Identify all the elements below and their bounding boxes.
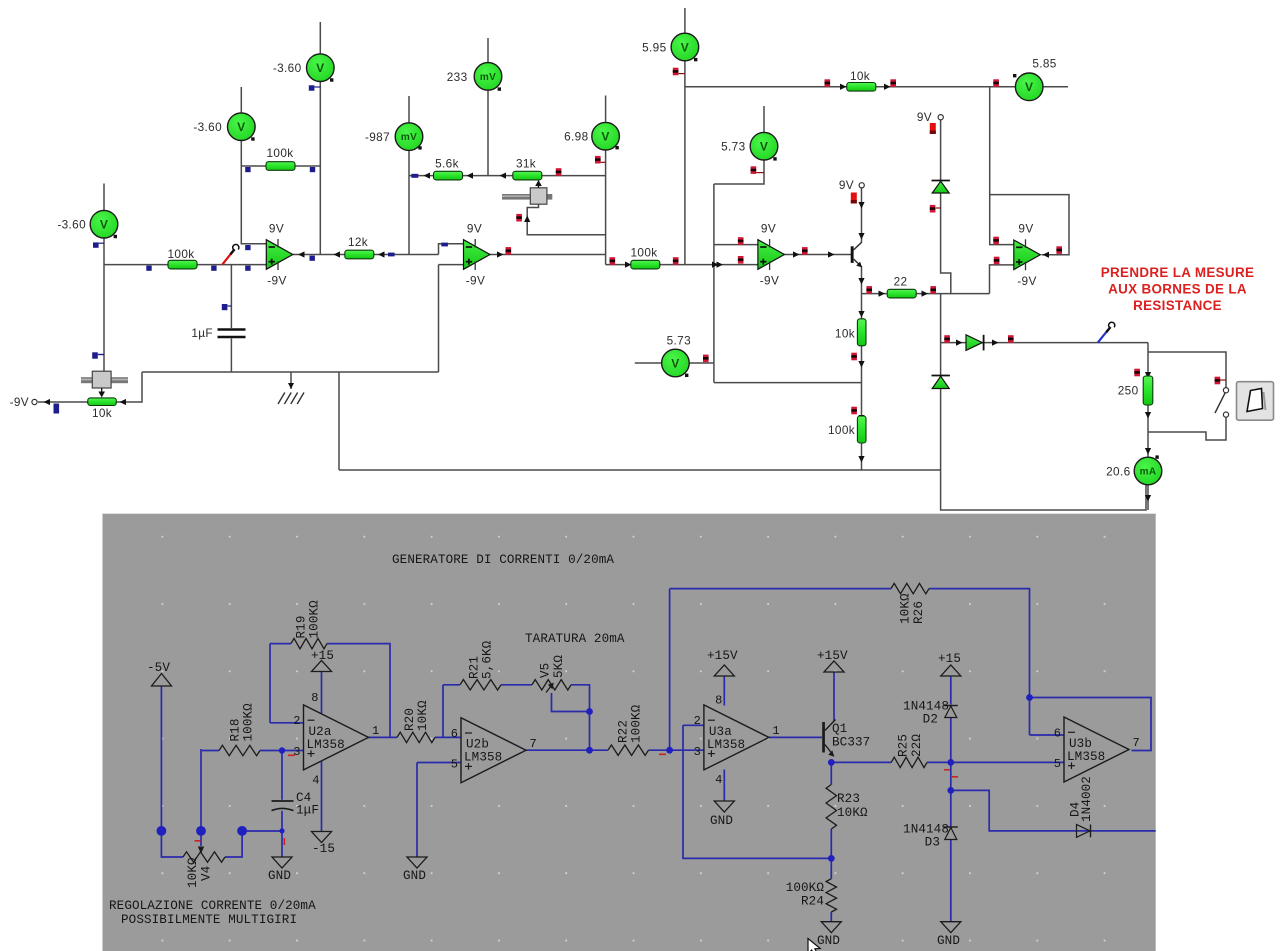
- svg-text:PRENDRE LA MESURE: PRENDRE LA MESURE: [1101, 265, 1255, 280]
- probe: [944, 335, 950, 343]
- svg-text:10k: 10k: [850, 69, 870, 83]
- probe: [556, 168, 562, 176]
- wire: [1030, 698, 1152, 751]
- probe: [245, 245, 250, 250]
- wire: [684, 8, 686, 265]
- voltmeter -3.60 V (3): [307, 54, 335, 82]
- arrow: [120, 399, 127, 405]
- op-amp U2b: [461, 718, 526, 783]
- svg-text:5.6k: 5.6k: [435, 156, 459, 170]
- probe: [1008, 335, 1014, 343]
- svg-text:LM358: LM358: [307, 738, 345, 752]
- svg-text:V: V: [760, 140, 768, 154]
- wire: [321, 672, 323, 718]
- wire: [670, 588, 891, 590]
- svg-text:5.73: 5.73: [667, 334, 691, 348]
- junction node: [666, 747, 673, 754]
- svg-text:7: 7: [1133, 736, 1140, 750]
- probe: [738, 237, 744, 245]
- wire: [950, 718, 952, 790]
- svg-text:31k: 31k: [516, 156, 536, 170]
- voltmeter -3.60 V (2): [228, 113, 256, 141]
- wire: [669, 589, 671, 751]
- ground GND (C4): [272, 857, 292, 868]
- svg-text:-9V: -9V: [466, 274, 485, 288]
- diode D2 1N4148: [944, 706, 958, 718]
- probe: [1056, 246, 1062, 254]
- junction node: [279, 747, 285, 753]
- probe: [993, 79, 999, 87]
- svg-text:9V: 9V: [1018, 222, 1033, 236]
- meter terminal dot: [685, 374, 688, 377]
- probe: [751, 166, 757, 174]
- svg-text:-15: -15: [312, 842, 335, 856]
- svg-text:7: 7: [530, 737, 537, 751]
- wire: [1147, 485, 1149, 511]
- voltmeter 233 mV: [474, 63, 502, 91]
- diode D2: [966, 335, 984, 351]
- wire: [200, 831, 202, 846]
- wire: [635, 362, 714, 364]
- arrow: [334, 251, 341, 257]
- junction node: [586, 708, 593, 715]
- junction node: [586, 747, 593, 754]
- terminal -5V: [152, 674, 172, 687]
- svg-text:+15: +15: [311, 649, 334, 663]
- arrow: [717, 261, 724, 267]
- wire: [950, 790, 952, 826]
- wire: [941, 194, 951, 294]
- wire: [714, 160, 764, 185]
- meter terminal dot: [1155, 455, 1158, 458]
- probe: [310, 256, 315, 261]
- wire: [241, 87, 266, 244]
- arrow: [922, 290, 929, 296]
- arrow: [858, 456, 864, 463]
- wire: [683, 724, 704, 726]
- svg-text:GENERATORE DI CORRENTI 0/20mA: GENERATORE DI CORRENTI 0/20mA: [392, 553, 614, 567]
- svg-text:R22: R22: [617, 720, 631, 743]
- resistor 10k (top): [847, 83, 876, 92]
- arrow: [1145, 495, 1151, 502]
- wire: [443, 684, 460, 686]
- wire: [927, 761, 1064, 763]
- wire: [831, 761, 891, 763]
- op-amp U4: [1014, 239, 1041, 270]
- svg-text:V: V: [237, 120, 245, 134]
- wire: [861, 267, 863, 471]
- resistor R23: [826, 785, 836, 830]
- junction node: [828, 855, 835, 862]
- meter terminal dot: [694, 58, 697, 61]
- wire: [38, 401, 88, 403]
- svg-text:R18: R18: [229, 719, 243, 742]
- svg-text:V: V: [100, 218, 108, 232]
- svg-text:R21: R21: [468, 656, 482, 679]
- terminal 9V (transistor): [839, 178, 864, 192]
- svg-text:V: V: [1025, 80, 1033, 94]
- svg-text:100KΩ: 100KΩ: [630, 704, 644, 743]
- probe: [506, 247, 512, 255]
- op-amp U3: [758, 239, 785, 270]
- wire: [339, 469, 941, 471]
- wire: [241, 165, 320, 167]
- switch (open, blue lever): [1098, 322, 1115, 342]
- wire: [713, 184, 715, 383]
- svg-text:+15V: +15V: [817, 649, 848, 663]
- svg-text:5: 5: [451, 758, 458, 772]
- wire: [1148, 417, 1226, 440]
- probe: [738, 256, 744, 264]
- svg-text:10k: 10k: [835, 327, 855, 341]
- probe: [146, 266, 151, 271]
- wire: [202, 750, 219, 752]
- wire: [1030, 734, 1065, 736]
- ground GND (R24): [821, 922, 841, 933]
- wire: [526, 749, 608, 751]
- wire: [416, 763, 418, 858]
- op-amp U3b: [1064, 717, 1129, 782]
- wire: [260, 750, 304, 752]
- resistor R22: [608, 745, 649, 755]
- wire: [439, 264, 464, 266]
- wire: [951, 790, 1156, 831]
- svg-text:R24: R24: [801, 895, 824, 909]
- capacitor C4: [272, 801, 294, 811]
- wire: [723, 770, 725, 802]
- svg-text:-9V: -9V: [267, 274, 286, 288]
- wire: [769, 736, 822, 738]
- ground GND (U2b): [407, 857, 427, 868]
- wire: [230, 339, 232, 373]
- svg-text:-9V: -9V: [10, 395, 29, 409]
- wire: [1147, 343, 1149, 458]
- svg-text:V5: V5: [539, 663, 553, 678]
- wire: [103, 184, 105, 372]
- probe: [994, 257, 1000, 265]
- capacitor 1uF: [218, 330, 246, 338]
- wire: [861, 188, 863, 243]
- svg-text:V: V: [681, 40, 689, 54]
- wire: [435, 736, 461, 738]
- wire: [784, 254, 851, 256]
- svg-text:9V: 9V: [917, 110, 932, 124]
- wire: [1148, 352, 1226, 388]
- potentiometer V4: [183, 852, 225, 862]
- svg-text:GND: GND: [403, 869, 426, 883]
- svg-text:+15: +15: [938, 652, 961, 666]
- probe: [1215, 377, 1221, 385]
- wire: [270, 722, 304, 724]
- svg-text:GND: GND: [710, 814, 733, 828]
- probe: [851, 353, 857, 361]
- probe: [930, 205, 936, 213]
- probe: [211, 266, 216, 271]
- svg-text:-3.60: -3.60: [273, 61, 302, 75]
- arrow: [298, 251, 305, 257]
- svg-text:250: 250: [1118, 384, 1139, 398]
- svg-text:-3.60: -3.60: [57, 217, 86, 231]
- probe: [851, 407, 857, 415]
- resistor 10k (potentiometer track): [88, 398, 117, 406]
- wire: [833, 672, 835, 721]
- svg-text:9V: 9V: [269, 221, 284, 235]
- wire: [161, 686, 183, 857]
- wire: [990, 87, 1014, 245]
- probe: [703, 355, 709, 363]
- svg-text:1: 1: [372, 724, 379, 738]
- resistor 31k: [513, 171, 542, 180]
- probe: [825, 79, 831, 87]
- probe: [930, 123, 936, 134]
- wire: [571, 685, 590, 750]
- meter terminal dot: [114, 235, 117, 238]
- zener diode D3: [932, 376, 950, 389]
- mouse cursor: [808, 939, 820, 951]
- svg-text:LM358: LM358: [707, 738, 745, 752]
- svg-text:R25: R25: [897, 734, 911, 757]
- arrow: [858, 202, 864, 209]
- svg-text:V: V: [671, 356, 679, 370]
- wire: [409, 175, 606, 177]
- probe: [92, 352, 98, 358]
- wire: [142, 371, 439, 373]
- svg-text:22: 22: [894, 275, 908, 289]
- arrow: [858, 361, 864, 368]
- ammeter 20.6 mA: [1134, 457, 1162, 485]
- probe: [595, 156, 601, 164]
- svg-text:8: 8: [311, 691, 318, 705]
- voltmeter 5.73 V (2): [662, 349, 690, 377]
- op-amp U1: [266, 239, 293, 270]
- svg-text:RESISTANCE: RESISTANCE: [1133, 298, 1222, 313]
- arrow: [884, 84, 891, 90]
- resistor R25: [891, 757, 927, 767]
- svg-text:R23: R23: [837, 792, 860, 806]
- wire: [200, 749, 202, 831]
- probe: [54, 404, 60, 414]
- wire: [990, 195, 1069, 255]
- arrow: [712, 261, 719, 267]
- arrow: [467, 172, 474, 178]
- svg-text:TARATURA 20mA: TARATURA 20mA: [525, 632, 625, 646]
- resistor R18: [219, 745, 260, 755]
- svg-text:AUX BORNES DE LA: AUX BORNES DE LA: [1108, 282, 1247, 297]
- resistor R19: [291, 638, 327, 648]
- wire: [830, 829, 832, 879]
- svg-text:100KΩ: 100KΩ: [786, 881, 825, 895]
- svg-text:5.85: 5.85: [1032, 56, 1056, 70]
- wire: [327, 644, 390, 738]
- wire: [368, 736, 397, 738]
- potentiometer V5 wiper arrow: [546, 683, 554, 693]
- svg-text:-9V: -9V: [1017, 274, 1036, 288]
- resistor 100k input: [168, 260, 197, 269]
- wire: [862, 293, 990, 295]
- junction node: [947, 759, 954, 766]
- power -15: [312, 832, 332, 843]
- svg-text:-5V: -5V: [147, 661, 170, 675]
- svg-text:8: 8: [715, 694, 722, 708]
- svg-text:V: V: [601, 130, 609, 144]
- potentiometer 31k wiper: [502, 180, 552, 204]
- svg-text:GND: GND: [268, 869, 291, 883]
- svg-text:1N4148: 1N4148: [903, 823, 949, 837]
- svg-text:5,6KΩ: 5,6KΩ: [481, 640, 495, 679]
- probe: [890, 79, 896, 87]
- resistor R20: [397, 732, 435, 742]
- probe: [222, 304, 228, 310]
- power +15 (D2): [941, 665, 961, 676]
- wire: [321, 758, 323, 832]
- probe: [610, 257, 616, 265]
- arrow: [500, 172, 507, 178]
- wire: [501, 684, 532, 686]
- wire: [649, 749, 704, 751]
- voltmeter -987 mV: [395, 123, 423, 151]
- arrow: [858, 233, 864, 240]
- power +15V (Q1): [824, 661, 844, 672]
- wire: [763, 106, 765, 133]
- svg-text:6: 6: [451, 727, 458, 741]
- schematic background: [103, 514, 1156, 951]
- diode D3 1N4148: [944, 827, 958, 840]
- arrow: [1043, 252, 1050, 258]
- arrow: [1145, 372, 1151, 379]
- wire: [552, 693, 590, 712]
- wire: [929, 589, 1030, 735]
- arrow: [858, 311, 864, 318]
- svg-text:-987: -987: [365, 130, 390, 144]
- wire: [830, 762, 832, 784]
- switch (open, red lever): [222, 244, 239, 264]
- svg-text:R26: R26: [912, 601, 926, 624]
- power +15 (U2a): [312, 661, 332, 672]
- meter terminal dot: [498, 87, 501, 90]
- probe: [309, 85, 315, 90]
- probe: [245, 167, 250, 172]
- ground: [278, 372, 304, 404]
- svg-text:mA: mA: [1140, 467, 1157, 478]
- transistor Q1 (NPN): [851, 242, 862, 267]
- wire: [950, 840, 952, 922]
- probe: [673, 257, 679, 265]
- wire: [417, 762, 461, 764]
- svg-text:1: 1: [772, 724, 779, 738]
- svg-text:LM358: LM358: [464, 751, 502, 765]
- potentiometer V5: [532, 680, 571, 690]
- wire: [714, 244, 758, 246]
- resistor R26: [891, 583, 929, 593]
- arrow: [840, 84, 847, 90]
- arrow: [44, 399, 51, 405]
- svg-text:9V: 9V: [839, 178, 854, 192]
- probe: [93, 242, 99, 247]
- svg-text:5KΩ: 5KΩ: [552, 655, 566, 678]
- diode D4 1N4002: [1077, 825, 1091, 838]
- svg-text:U3a: U3a: [709, 725, 732, 739]
- svg-text:U3b: U3b: [1069, 737, 1092, 751]
- probe: [245, 266, 250, 271]
- svg-text:100k: 100k: [828, 423, 855, 437]
- wire: [950, 676, 952, 705]
- wire: [293, 254, 439, 256]
- wire: [439, 244, 464, 255]
- svg-text:R19: R19: [295, 616, 309, 639]
- junction node: [279, 828, 284, 833]
- wire: [685, 86, 1068, 88]
- svg-text:2: 2: [293, 714, 300, 728]
- wire: [281, 811, 283, 857]
- voltmeter 6.98 V: [592, 122, 620, 150]
- svg-text:10KΩ: 10KΩ: [899, 593, 913, 624]
- wire: [269, 644, 271, 723]
- wire: [941, 294, 1146, 510]
- wire: [116, 372, 142, 402]
- probe: [673, 68, 679, 76]
- svg-text:6.98: 6.98: [564, 129, 588, 143]
- resistor 10k (vertical): [857, 319, 866, 346]
- arrow: [992, 339, 999, 345]
- op-amp U2a: [304, 705, 369, 770]
- svg-text:9V: 9V: [467, 221, 482, 235]
- arrow: [956, 339, 963, 345]
- wire: [941, 342, 1148, 344]
- svg-text:100k: 100k: [168, 247, 195, 261]
- push switch icon: [1237, 382, 1274, 421]
- svg-text:U2a: U2a: [309, 725, 332, 739]
- probe: [866, 286, 872, 294]
- wire: [830, 912, 832, 922]
- arrow: [858, 278, 864, 285]
- meter terminal dot: [330, 78, 333, 81]
- svg-text:Q1: Q1: [832, 722, 847, 736]
- resistor 250: [1143, 376, 1153, 405]
- arrow: [858, 415, 864, 422]
- svg-text:6: 6: [1054, 726, 1061, 740]
- wire: [723, 676, 725, 706]
- meter terminal dot: [251, 137, 254, 140]
- svg-text:5.95: 5.95: [642, 40, 666, 54]
- wire: [338, 372, 340, 470]
- junction node: [828, 759, 835, 766]
- svg-text:100KΩ: 100KΩ: [308, 600, 322, 639]
- zener diode D1: [932, 181, 950, 194]
- svg-text:10KΩ: 10KΩ: [416, 700, 430, 731]
- arrow: [879, 290, 886, 296]
- resistor 12k: [345, 250, 374, 259]
- ground GND (D3): [941, 922, 961, 933]
- resistor R24: [826, 879, 836, 912]
- svg-text:4: 4: [312, 774, 319, 788]
- svg-text:100k: 100k: [267, 146, 294, 160]
- svg-text:-3.60: -3.60: [193, 120, 222, 134]
- junction node: [1026, 694, 1033, 701]
- svg-text:10k: 10k: [92, 406, 112, 420]
- terminal 9V (zener): [917, 110, 943, 124]
- junction node: [237, 826, 247, 836]
- probe: [388, 253, 395, 257]
- arrow: [497, 251, 504, 257]
- wire: [230, 265, 232, 328]
- wire: [990, 265, 1014, 294]
- svg-text:5: 5: [1054, 757, 1061, 771]
- probe: [802, 247, 808, 255]
- probe: [441, 243, 448, 247]
- meter terminal dot: [1013, 74, 1016, 77]
- arrow: [1145, 448, 1151, 455]
- junction node: [947, 787, 954, 794]
